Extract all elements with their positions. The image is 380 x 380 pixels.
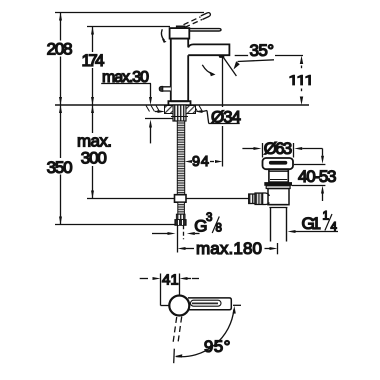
svg-text:3: 3 [206,212,212,224]
spout [188,44,229,55]
dimension Ø63 [242,139,322,158]
35deg label [234,41,304,69]
aerator notch [219,55,224,57]
drain plug bar [269,161,287,165]
svg-text:208: 208 [47,40,73,59]
Ø34 annotation [155,108,241,127]
pop-up knob on column [160,87,171,91]
svg-text:G1: G1 [302,214,322,233]
dimension 111 [289,56,311,106]
drain axis extension [277,243,279,254]
max.30 annotation [101,69,152,143]
hatching under countertop right [189,106,203,112]
dimension 40-53 [292,149,337,202]
svg-text:max.: max. [77,132,112,151]
extension line body top (174) [87,26,170,28]
svg-text:1: 1 [323,211,329,223]
extension line top (lever max height) [55,12,204,14]
axis line below nut [177,225,179,252]
G3/8 annotation [152,212,222,235]
mounting shank threaded [173,105,186,121]
drain seal washer dark [264,182,292,186]
svg-text:Ø63: Ø63 [264,139,293,158]
drain port merge [263,193,270,205]
left clamp block [165,106,174,114]
95deg arc [176,310,234,357]
svg-text:8: 8 [216,223,222,235]
svg-text:40-53: 40-53 [298,167,337,186]
hose lower braided [178,202,185,214]
hatching under countertop left [146,106,160,112]
top view handle [188,298,231,310]
extension/linkage line to drain port (max.300) [87,198,249,200]
dashed thread stub [183,225,185,239]
lever swing arc arrow [161,29,164,40]
drain tailpipe [270,208,272,242]
cartridge box [170,28,190,38]
svg-text:350: 350 [47,158,73,177]
faucet base flange [168,101,190,105]
faucet column [171,39,188,102]
washer small lines under shank [171,116,188,118]
svg-text:35°: 35° [250,41,275,60]
svg-text:max.180: max.180 [196,239,262,258]
drain rim [263,158,294,169]
drain washer lower [266,186,290,189]
hose end nut [175,220,186,226]
svg-text:41: 41 [162,271,179,288]
drain neck [269,169,288,182]
hose upper braided [177,121,184,196]
drain side port cap knurled [249,194,255,204]
rotated lever end line [173,349,176,364]
top view circle (body) [169,296,189,316]
svg-text:300: 300 [81,149,107,168]
countertop line [55,104,309,106]
top view: 41 dimension [140,271,199,305]
svg-text:174: 174 [82,51,105,70]
washer line [145,118,173,120]
G1 1/4 annotation [288,211,339,234]
text 111 drawn as paths (clean Helvetica-style ones) [289,75,311,86]
svg-text:95°: 95° [204,337,231,356]
95deg reference stub [233,304,241,306]
lever horizontal bar [189,29,222,31]
lever raised dashed [184,13,211,28]
lever pivot bump [177,26,185,28]
top view rotated lever dashed [173,317,182,345]
hose end crimp [176,214,185,220]
svg-text:94: 94 [192,154,209,170]
top view handle inner detail [191,300,222,306]
hose fitting block [175,195,187,203]
extension line hose end (350) [55,224,175,226]
drain body [268,189,289,205]
dimension line 208/350 vertical [59,13,62,225]
drain side port hex [255,193,263,205]
aerator axis diagonal [222,56,236,76]
right clamp block [186,106,196,114]
dimension 94 [185,56,223,170]
dimension line 174/max300 vertical [91,27,94,199]
dimension max.180 [178,239,278,258]
aerator swivel arc arrow [202,65,213,74]
